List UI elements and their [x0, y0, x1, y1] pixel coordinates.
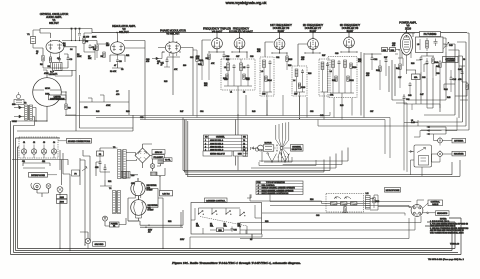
svg-text:1: 1	[205, 140, 206, 142]
resistor R8	[93, 45, 98, 58]
jack J6	[57, 187, 63, 193]
coil L12	[366, 193, 371, 209]
capacitor C3	[67, 56, 74, 61]
capacitor C28	[326, 62, 329, 92]
resistor R14	[193, 50, 204, 118]
value labels stage7 texture	[294, 55, 325, 96]
svg-text:1: 1	[258, 185, 259, 187]
capacitor C19	[247, 64, 250, 86]
svg-text:100: 100	[183, 65, 186, 67]
relay K3	[225, 211, 231, 215]
grid stopper boxes	[382, 48, 396, 52]
svg-text:R26: R26	[308, 73, 311, 75]
svg-text:C59: C59	[131, 183, 134, 185]
value labels stage5 texture	[224, 56, 253, 94]
label stage V6	[270, 23, 292, 33]
label stage V3	[160, 29, 186, 36]
svg-text:R45: R45	[447, 97, 450, 99]
wire jack stems	[24, 145, 54, 159]
svg-text:MULTI CHANNEL CARRIER OPERATE: MULTI CHANNEL CARRIER OPERATE	[262, 189, 295, 192]
value label mid	[116, 91, 131, 113]
svg-text:R23: R23	[288, 65, 291, 67]
coupling links V1-V2	[71, 28, 98, 41]
svg-text:J12: J12	[42, 161, 45, 163]
svg-text:6SL7GT: 6SL7GT	[49, 21, 59, 25]
svg-text:C19: C19	[246, 79, 249, 81]
wire V2 cathode	[110, 55, 125, 68]
svg-text:C20: C20	[250, 56, 253, 58]
svg-text:PA TUNING: PA TUNING	[424, 33, 437, 36]
resistor R9	[101, 52, 106, 58]
svg-text:MOTOR: MOTOR	[265, 143, 273, 145]
coil L6	[330, 60, 335, 93]
resistor R20	[223, 74, 228, 80]
junction dot T2	[35, 120, 36, 121]
svg-text:RECEIVER: RECEIVER	[454, 154, 464, 156]
resistor R17	[206, 54, 211, 80]
connector labels	[23, 142, 55, 144]
svg-text:TM 8676-S-101 (Face page 200): TM 8676-S-101 (Face page 200) No. 2	[428, 259, 465, 261]
tube V4	[212, 37, 223, 49]
capacitor C5	[89, 44, 96, 49]
bridge rectifier CR1	[135, 148, 150, 163]
svg-text:C13: C13	[190, 57, 193, 59]
svg-text:C27: C27	[294, 94, 297, 96]
wire PA grid	[364, 50, 400, 101]
resistor R28	[298, 83, 306, 89]
wire T2 leads	[22, 108, 37, 126]
coil L3	[261, 60, 266, 92]
resistor R41	[436, 60, 441, 80]
svg-text:TO FIL: TO FIL	[165, 160, 171, 162]
svg-text:C58: C58	[95, 167, 98, 169]
terminal board TB1	[14, 92, 24, 108]
tube V2	[111, 41, 125, 58]
svg-text:6AG7: 6AG7	[347, 29, 354, 33]
svg-text:L1: L1	[230, 92, 232, 94]
svg-text:R11: R11	[126, 55, 129, 57]
value labels stage2 texture	[106, 43, 149, 73]
svg-text:470: 470	[146, 61, 149, 63]
spare connectors dashed box	[19, 137, 58, 158]
resistor R2	[48, 56, 52, 68]
svg-text:4400 KC DIAL B: 4400 KC DIAL B	[210, 142, 224, 145]
svg-text:SPARE CONNECTORS: SPARE CONNECTORS	[68, 140, 91, 143]
label stage V7	[303, 23, 324, 33]
tube V9	[400, 30, 412, 60]
svg-text:SINGLE CHANNEL CARRIER OPERATE: SINGLE CHANNEL CARRIER OPERATE	[262, 187, 296, 190]
wire lower contact drops	[278, 155, 288, 163]
resistor R3 limiter	[65, 104, 72, 115]
ground stud E1	[85, 238, 90, 248]
resistor R16	[198, 60, 203, 80]
label box power switch	[110, 222, 120, 227]
svg-text:KEYING RELAY K7: KEYING RELAY K7	[210, 153, 225, 156]
wire long mid buses	[65, 95, 418, 158]
frequency chart table	[204, 135, 248, 152]
wire V8 feed	[341, 33, 364, 118]
switch contact spokes	[276, 139, 291, 158]
svg-text:R18: R18	[226, 59, 229, 61]
svg-text:4: 4	[258, 193, 259, 195]
fuse box F2	[97, 151, 104, 156]
coil L1	[224, 59, 229, 86]
wire ps left	[96, 148, 126, 226]
resistor R25	[286, 53, 293, 70]
svg-text:REL: REL	[210, 226, 213, 228]
wire lower-left risers	[12, 150, 90, 245]
label box headsets	[436, 211, 450, 216]
svg-text:INTERPHONE: INTERPHONE	[31, 175, 45, 177]
svg-text:R50: R50	[218, 230, 221, 232]
capacitor C11	[161, 57, 171, 67]
V contact pair B	[279, 153, 289, 163]
wire mid horizontals	[11, 70, 133, 131]
svg-text:C49: C49	[320, 115, 323, 117]
svg-text:115V AC: 115V AC	[155, 151, 163, 154]
wire fan bus 2	[283, 151, 342, 165]
svg-text:UUF. CONNECTIONS SAME IN ALL S: UUF. CONNECTIONS SAME IN ALL SETS	[430, 232, 464, 235]
label stage V4	[203, 27, 231, 34]
power chassis boundary	[128, 210, 183, 227]
svg-text:J1: J1	[23, 142, 25, 144]
coil L7	[344, 60, 347, 93]
wire main HT bus	[92, 32, 467, 34]
extra labels bottom texture	[22, 161, 319, 241]
svg-text:220K: 220K	[77, 56, 82, 58]
label box carrier control	[205, 198, 228, 203]
svg-text:TYPE OF OPERATION: TYPE OF OPERATION	[266, 181, 285, 184]
label stage V8	[340, 23, 361, 33]
power transformer T3	[113, 147, 126, 179]
value labels pa texture	[384, 43, 465, 99]
jack J4	[51, 149, 56, 154]
svg-text:R9 47K: R9 47K	[110, 71, 117, 73]
wire bottom bus 1	[18, 222, 456, 249]
tube V3	[165, 41, 180, 56]
svg-text:R53: R53	[265, 221, 268, 223]
crystal Y1	[27, 30, 36, 48]
wire ps right	[130, 164, 165, 215]
relay K5 box	[409, 145, 432, 167]
receiver jack J8	[438, 150, 443, 159]
capacitor C26	[301, 69, 304, 92]
wire right risers	[415, 33, 469, 130]
svg-text:FILAMENT: FILAMENT	[154, 156, 164, 159]
resistor R64	[373, 198, 379, 209]
control cable connector P1	[411, 205, 423, 217]
junction dots stage bottoms	[46, 46, 372, 251]
capacitor C55	[231, 227, 237, 232]
svg-text:C39: C39	[436, 73, 439, 75]
svg-text:J2: J2	[33, 142, 35, 144]
filament transformer T4	[109, 188, 121, 214]
capacitor C22	[269, 60, 272, 92]
relay K2	[211, 211, 217, 215]
svg-text:6AG7: 6AG7	[278, 29, 285, 33]
label box output 6.3V	[160, 191, 173, 196]
coil L4	[293, 69, 298, 92]
value labels stage6 texture	[257, 49, 291, 96]
capacitor C34	[385, 58, 388, 76]
svg-text:J11: J11	[22, 161, 25, 163]
label box spare connectors	[58, 139, 92, 144]
junction dots chassis	[145, 225, 149, 228]
svg-text:4300 KC DIAL A: 4300 KC DIAL A	[210, 139, 224, 142]
microphone label box	[385, 188, 401, 193]
resistor R50	[217, 228, 224, 232]
capacitor C42	[426, 58, 429, 78]
wire bracket band	[23, 150, 63, 174]
svg-text:REL: REL	[196, 226, 199, 228]
svg-text:C21: C21	[276, 57, 279, 59]
inductor loop B	[344, 196, 351, 199]
notes block	[430, 219, 469, 235]
svg-text:DOUBLER V5 6AG7: DOUBLER V5 6AG7	[229, 30, 253, 34]
wire bottom bus 4	[11, 218, 462, 255]
capacitor C43 pa	[461, 66, 464, 82]
wire carrier contacts	[191, 208, 240, 220]
coil L5	[321, 62, 324, 92]
inductor loop A	[334, 196, 341, 199]
meter M2	[251, 147, 263, 151]
choke L10	[121, 172, 135, 179]
resistor R31	[332, 76, 337, 82]
svg-text:MICROPHONE: MICROPHONE	[386, 190, 400, 192]
svg-text:470K: 470K	[106, 105, 111, 107]
wire filter out	[370, 195, 412, 210]
resistor R32	[347, 76, 355, 82]
wire V6 feed	[265, 33, 287, 57]
label box filament	[152, 155, 165, 159]
left bus verticals	[11, 121, 61, 255]
wire fan bus 6	[187, 121, 460, 176]
svg-text:470: 470	[301, 59, 304, 61]
svg-text:CARRIER CONTROL: CARRIER CONTROL	[206, 200, 226, 203]
tuned circuit dashed box Z1	[221, 59, 255, 90]
wire bridge leads	[126, 144, 152, 168]
wire V9 plate	[406, 30, 415, 37]
svg-text:COMPENSATION: COMPENSATION	[50, 97, 65, 100]
svg-text:100K: 100K	[92, 37, 97, 39]
wire connector drops	[37, 174, 70, 251]
transformer T2 audio input	[24, 103, 33, 121]
capacitor C32	[371, 56, 379, 70]
extra wires pa density	[398, 58, 455, 108]
wire Z5 bottom	[330, 93, 354, 120]
svg-text:C56: C56	[310, 111, 313, 113]
svg-text:R48: R48	[252, 111, 255, 113]
label box J105	[57, 195, 68, 204]
wire Z3 bottom	[294, 92, 305, 115]
dashed ganging line	[200, 217, 247, 227]
capacitor C45	[450, 70, 458, 92]
switch arrow S3	[82, 167, 87, 171]
svg-text:C18: C18	[224, 79, 227, 81]
wire misc risers bottom	[80, 116, 251, 249]
svg-text:5Y3GT: 5Y3GT	[147, 190, 154, 192]
wire fan bus 4	[183, 118, 330, 171]
resistor R43 pa	[466, 82, 468, 96]
tuned circuit dashed box Z2	[260, 57, 274, 96]
svg-text:R51: R51	[108, 181, 111, 183]
svg-text:L12: L12	[366, 193, 369, 195]
tube V7	[308, 38, 319, 50]
jack J2	[31, 149, 36, 154]
modes of operation table	[256, 181, 303, 195]
svg-text:470: 470	[366, 75, 369, 77]
wire contact baseline	[259, 150, 316, 166]
label box control cable	[428, 200, 443, 206]
capacitor C50	[99, 156, 102, 172]
extra labels mid texture	[84, 105, 373, 119]
mic filter dashed box	[326, 194, 364, 213]
label box interphone	[29, 173, 58, 178]
wire bottom bus 3	[14, 252, 459, 254]
tuned circuit dashed box Z4	[319, 59, 330, 96]
svg-text:2E26: 2E26	[405, 27, 412, 31]
label stage V1	[40, 12, 69, 25]
svg-text:1M: 1M	[63, 45, 66, 47]
label boxes keyer pair	[203, 151, 246, 156]
capacitor C41	[420, 56, 423, 72]
svg-text:HEADSETS: HEADSETS	[437, 212, 448, 215]
svg-text:C23: C23	[262, 94, 265, 96]
pilot lamp I1	[150, 159, 155, 171]
antenna jack J7	[438, 137, 443, 146]
wire V2 nets	[62, 33, 145, 120]
label stage V5	[229, 27, 253, 34]
resistor R30	[350, 63, 357, 93]
microphone jack cluster	[31, 183, 51, 190]
svg-text:C55: C55	[234, 230, 237, 232]
tube V6	[274, 38, 285, 50]
label box channel selector	[291, 145, 304, 152]
svg-text:R49: R49	[340, 105, 343, 107]
wire fan bus 3	[251, 154, 336, 169]
wire lines to connector	[270, 194, 411, 207]
svg-text:R47: R47	[180, 111, 183, 113]
wire relay jacks	[432, 134, 453, 162]
transformer T1 box	[53, 63, 63, 76]
svg-text:R46: R46	[96, 111, 99, 113]
switch lower contacts	[278, 154, 289, 158]
svg-text:C9: C9	[121, 69, 123, 71]
svg-text:K6: K6	[250, 239, 252, 241]
resistor R24	[265, 76, 273, 82]
wire circle stems	[36, 70, 66, 121]
svg-text:C29: C29	[335, 53, 338, 55]
svg-text:C4: C4	[70, 49, 72, 51]
value labels stage8 texture	[330, 53, 369, 97]
capacitor C18	[233, 64, 236, 86]
svg-text:115V: 115V	[180, 239, 185, 241]
wire V7 bottom	[321, 92, 329, 120]
svg-text:C17: C17	[236, 56, 239, 58]
svg-text:L2: L2	[243, 92, 245, 94]
value labels stage4 texture	[196, 56, 229, 87]
svg-text:S1: S1	[113, 225, 115, 227]
wire V5 feed	[232, 33, 247, 58]
svg-text:70: 70	[243, 140, 245, 142]
relay K4	[239, 212, 245, 216]
label box to fil	[164, 158, 173, 162]
extra mid rect wires	[80, 95, 130, 102]
svg-text:2: 2	[258, 188, 259, 190]
wire V4 feed	[202, 33, 224, 60]
wire Z1 bottom	[224, 86, 252, 115]
relay K1	[198, 211, 204, 215]
svg-text:4500 KC DIAL C: 4500 KC DIAL C	[210, 146, 224, 149]
label box 115V	[152, 150, 165, 155]
wire V1 outputs	[43, 47, 76, 76]
svg-text:J4: J4	[53, 142, 55, 144]
svg-text:R38: R38	[411, 63, 414, 65]
resistor R40	[432, 56, 439, 78]
svg-text:TM866-10: TM866-10	[450, 244, 460, 246]
resistor R62	[341, 202, 347, 205]
svg-text:470: 470	[392, 45, 395, 47]
capacitor C36 gather	[403, 94, 413, 110]
antenna changeover contacts	[427, 126, 447, 135]
svg-text:R15: R15	[164, 81, 167, 83]
rectifier tube V11	[131, 196, 147, 218]
wire connector leads	[417, 200, 436, 214]
svg-text:LOADING: LOADING	[446, 60, 455, 63]
svg-text:C63: C63	[316, 215, 319, 217]
tube V8	[344, 36, 355, 48]
svg-text:J9: J9	[463, 59, 465, 61]
svg-text:DIAL CONTROL: DIAL CONTROL	[262, 184, 275, 187]
svg-text:R52: R52	[168, 221, 171, 223]
svg-text:47: 47	[36, 53, 38, 55]
svg-text:www.royalsignals.org.uk: www.royalsignals.org.uk	[226, 1, 267, 5]
capacitor C44	[409, 82, 412, 95]
choke blob	[151, 172, 158, 176]
motor boost circle B1	[33, 78, 62, 107]
tuned circuit dashed box Z5	[328, 57, 357, 98]
value labels stage1 texture	[36, 43, 92, 75]
svg-text:CABLE: CABLE	[432, 203, 439, 206]
svg-text:C31: C31	[330, 95, 333, 97]
carrier control box	[191, 203, 262, 235]
label 4-40 right	[320, 115, 415, 124]
meter box M1	[406, 60, 420, 90]
svg-text:470K: 470K	[44, 73, 49, 75]
wire filter series	[250, 194, 366, 203]
svg-text:C53: C53	[140, 117, 143, 119]
svg-text:J3: J3	[43, 142, 45, 144]
svg-text:ANTENNA: ANTENNA	[454, 140, 464, 143]
label box PA TUNING	[420, 32, 441, 37]
label limiter above circle	[49, 72, 57, 77]
label relay row	[196, 224, 241, 228]
svg-text:Figure 101. Radio Transmitter: Figure 101. Radio Transmitters T-14A/TRC…	[172, 261, 301, 265]
label box ANTENNA LOADING	[443, 57, 459, 63]
svg-text:470: 470	[196, 58, 199, 60]
V contact pair A	[266, 153, 276, 163]
tuned circuit dashed box Z3	[292, 66, 307, 96]
wire carrier bottom	[190, 205, 262, 249]
terminal grid block	[243, 148, 248, 156]
coil L2	[240, 59, 247, 86]
svg-text:6AG7: 6AG7	[310, 29, 317, 33]
svg-text:C5 470: C5 470	[83, 37, 89, 39]
wire ps bottoms	[128, 198, 142, 221]
wire audio input net	[84, 33, 95, 60]
label box receiver	[452, 151, 466, 156]
heater coil	[158, 160, 164, 164]
